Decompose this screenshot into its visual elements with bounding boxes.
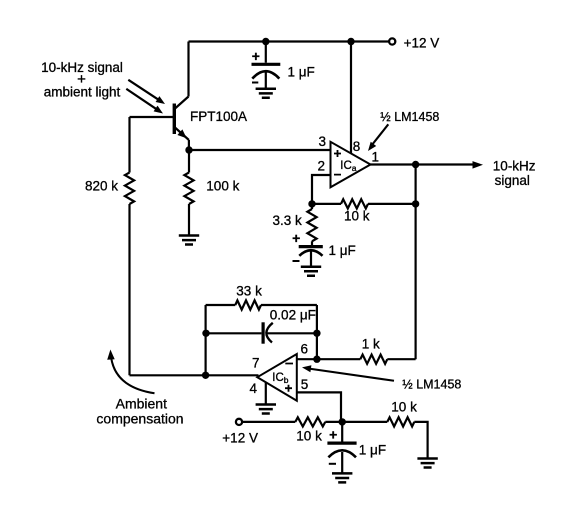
svg-text:FPT100A: FPT100A (190, 109, 247, 124)
svg-text:5: 5 (301, 377, 309, 392)
svg-text:+: + (329, 426, 337, 442)
svg-text:1 k: 1 k (362, 336, 380, 351)
svg-text:signal: signal (495, 173, 530, 188)
svg-text:+: + (252, 48, 260, 64)
svg-text:2: 2 (318, 159, 326, 174)
svg-text:10 k: 10 k (296, 428, 322, 443)
svg-text:1 μF: 1 μF (288, 64, 315, 79)
svg-text:+: + (292, 230, 300, 246)
svg-text:+12 V: +12 V (404, 35, 440, 50)
svg-text:33 k: 33 k (236, 283, 262, 298)
svg-text:3: 3 (319, 134, 327, 149)
svg-text:0.02 μF: 0.02 μF (270, 308, 316, 323)
svg-text:compensation: compensation (96, 410, 183, 426)
svg-text:6: 6 (301, 341, 309, 356)
svg-text:1: 1 (371, 149, 379, 164)
svg-text:Ambient: Ambient (116, 396, 167, 412)
svg-text:3.3 k: 3.3 k (273, 213, 303, 228)
svg-text:10 k: 10 k (344, 209, 370, 224)
svg-text:+12 V: +12 V (222, 431, 258, 446)
svg-text:1 μF: 1 μF (329, 243, 356, 258)
svg-text:100 k: 100 k (206, 178, 239, 193)
svg-text:10 k: 10 k (391, 399, 417, 414)
svg-text:8: 8 (353, 139, 361, 154)
svg-text:½ LM1458: ½ LM1458 (402, 377, 461, 391)
svg-text:7: 7 (252, 355, 260, 370)
svg-text:4: 4 (250, 381, 258, 396)
svg-text:½ LM1458: ½ LM1458 (380, 110, 439, 124)
svg-text:820 k: 820 k (85, 178, 118, 193)
svg-text:ambient light: ambient light (44, 84, 121, 99)
svg-text:10-kHz: 10-kHz (493, 158, 536, 173)
svg-text:1 μF: 1 μF (359, 442, 386, 457)
